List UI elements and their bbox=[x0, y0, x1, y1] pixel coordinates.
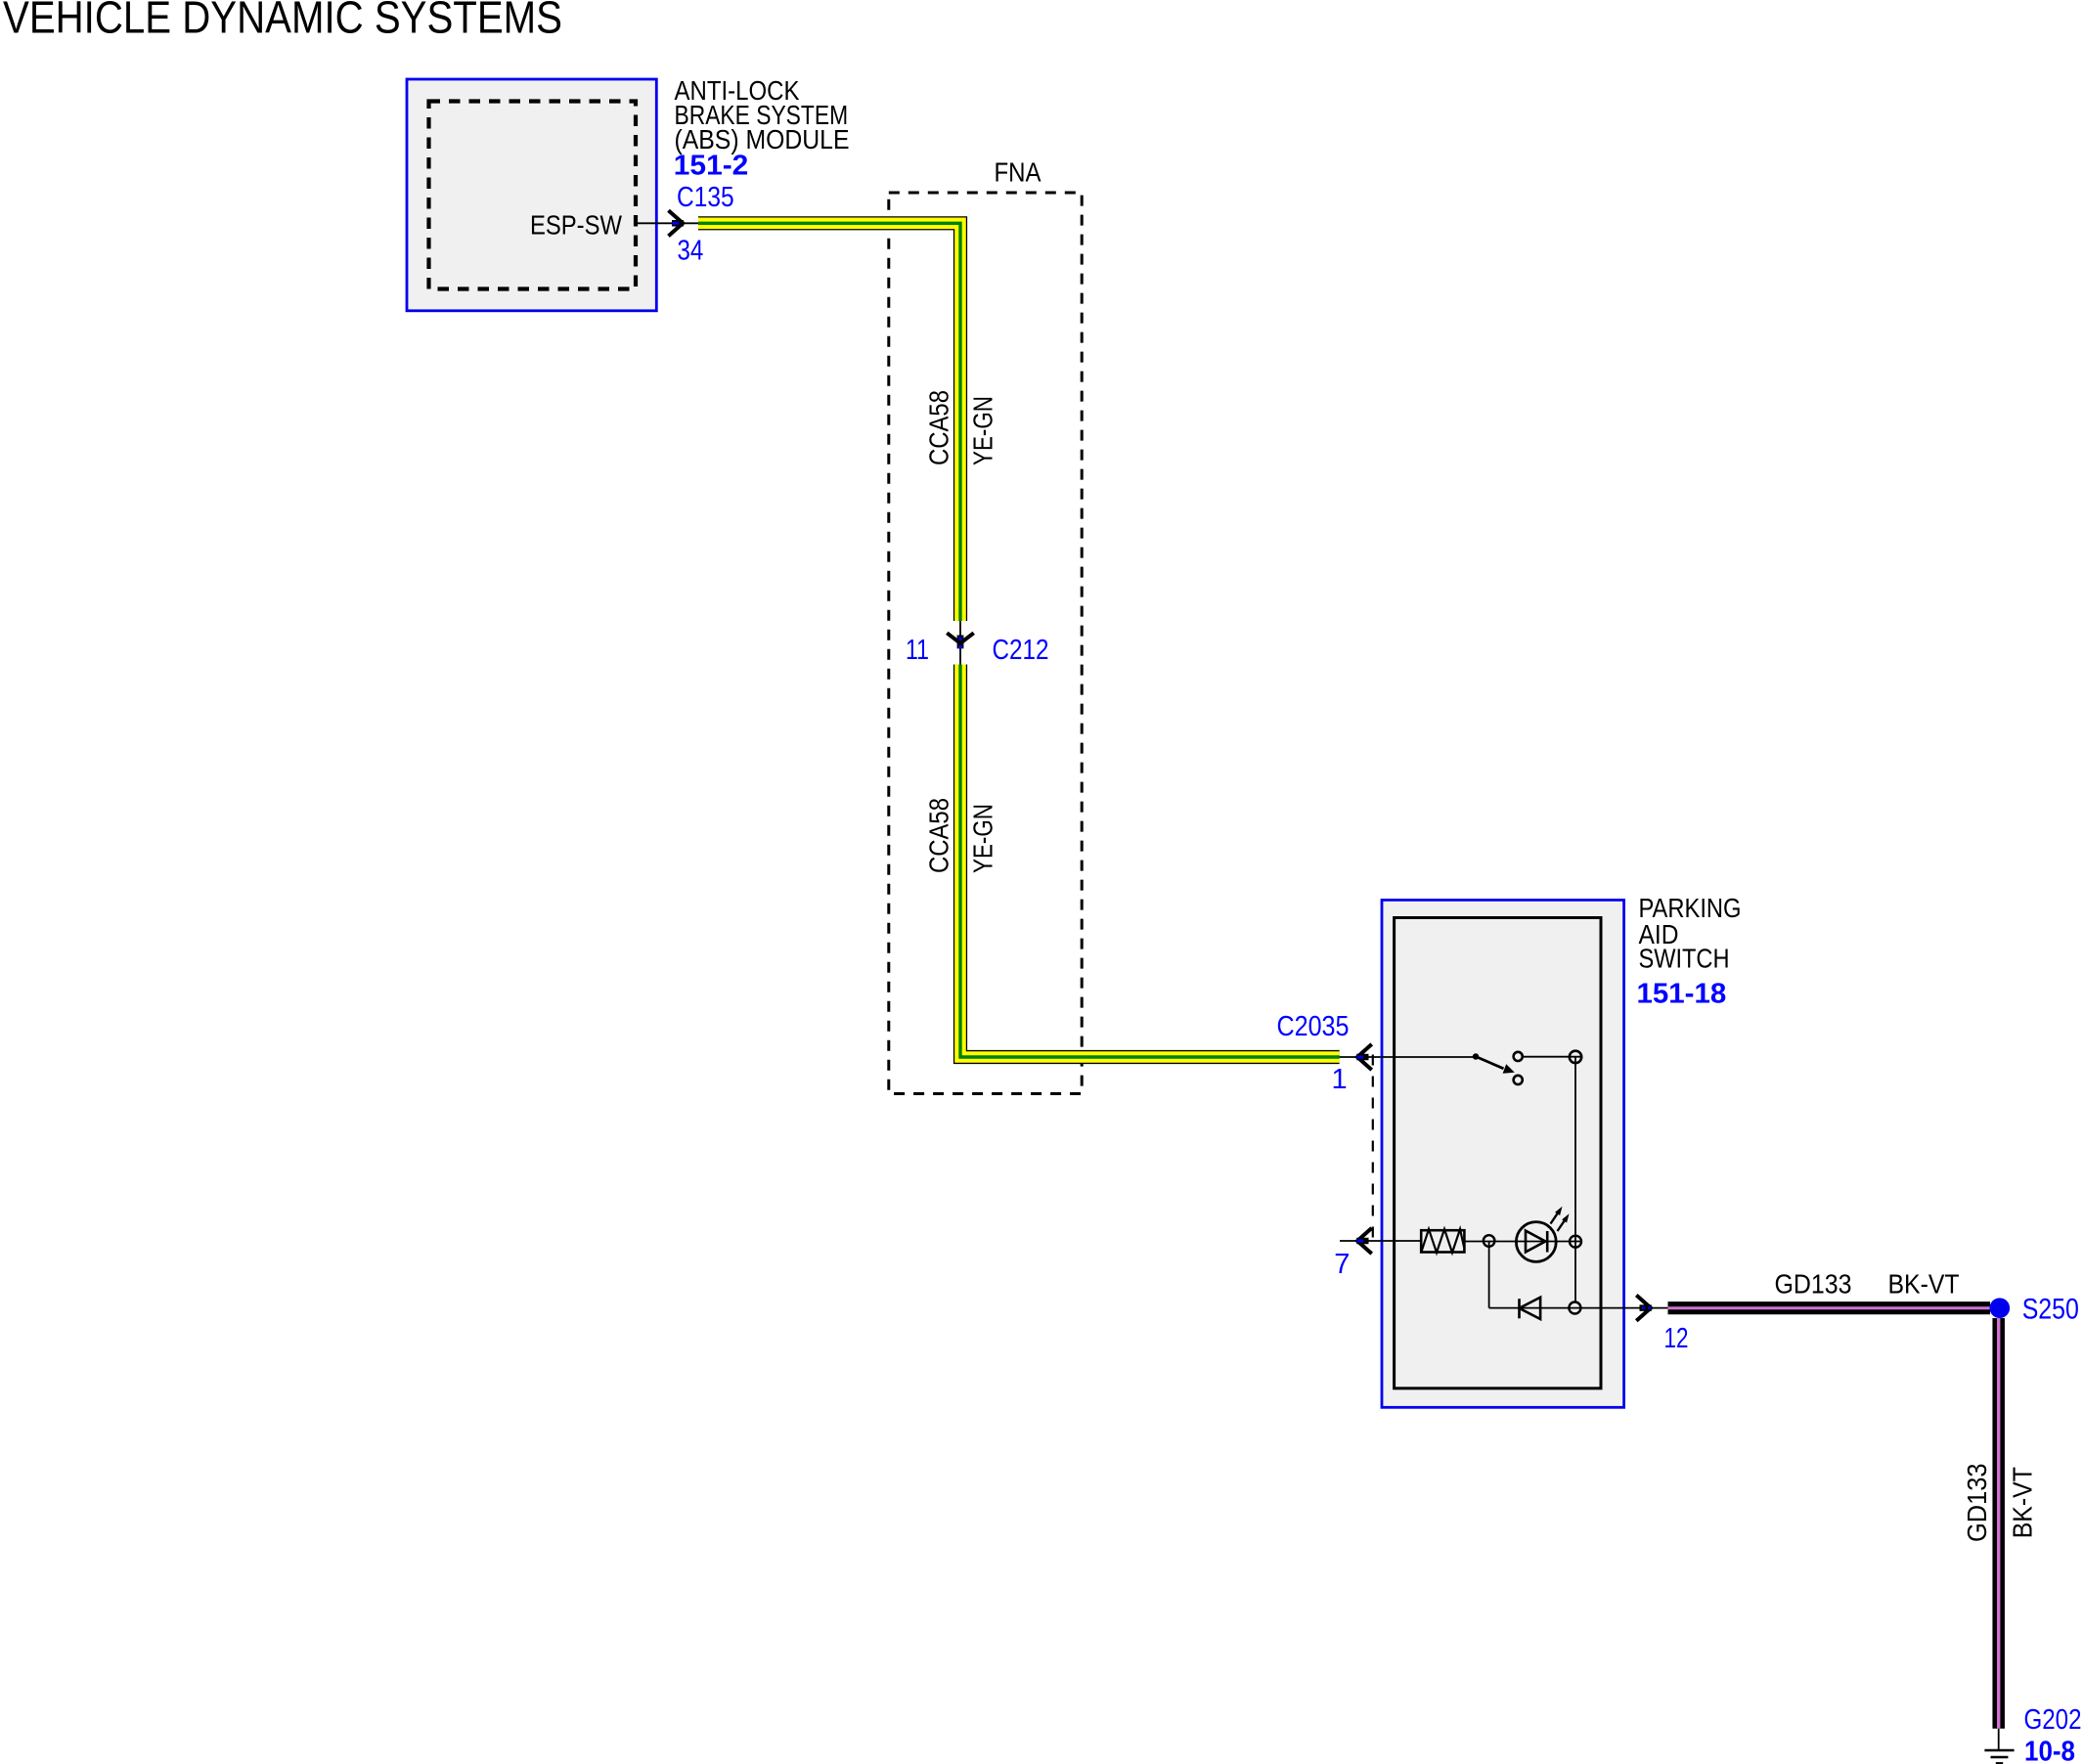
svg-text:10-8: 10-8 bbox=[2024, 1737, 2075, 1764]
svg-text:GD133: GD133 bbox=[1775, 1269, 1852, 1300]
svg-text:SWITCH: SWITCH bbox=[1639, 943, 1730, 973]
svg-text:GD133: GD133 bbox=[1962, 1464, 1992, 1543]
svg-text:YE-GN: YE-GN bbox=[967, 804, 997, 873]
svg-text:ESP-SW: ESP-SW bbox=[530, 209, 622, 240]
svg-text:C135: C135 bbox=[677, 182, 734, 213]
svg-text:YE-GN: YE-GN bbox=[967, 396, 997, 465]
svg-text:S250: S250 bbox=[2022, 1294, 2079, 1326]
svg-text:11: 11 bbox=[906, 635, 929, 666]
svg-text:C212: C212 bbox=[993, 635, 1049, 666]
svg-text:34: 34 bbox=[678, 236, 704, 267]
svg-text:G202: G202 bbox=[2024, 1704, 2082, 1736]
svg-text:FNA: FNA bbox=[995, 157, 1041, 188]
svg-text:7: 7 bbox=[1334, 1249, 1350, 1280]
svg-text:CCA58: CCA58 bbox=[924, 390, 954, 465]
svg-text:151-18: 151-18 bbox=[1637, 978, 1727, 1009]
svg-text:BK-VT: BK-VT bbox=[1888, 1269, 1960, 1300]
svg-text:1: 1 bbox=[1332, 1064, 1348, 1095]
svg-text:151-2: 151-2 bbox=[674, 150, 749, 181]
svg-text:CCA58: CCA58 bbox=[924, 798, 954, 873]
svg-text:VEHICLE DYNAMIC SYSTEMS: VEHICLE DYNAMIC SYSTEMS bbox=[3, 0, 562, 43]
svg-text:C2035: C2035 bbox=[1277, 1011, 1350, 1042]
svg-text:12: 12 bbox=[1664, 1323, 1689, 1354]
svg-text:BK-VT: BK-VT bbox=[2008, 1467, 2038, 1538]
